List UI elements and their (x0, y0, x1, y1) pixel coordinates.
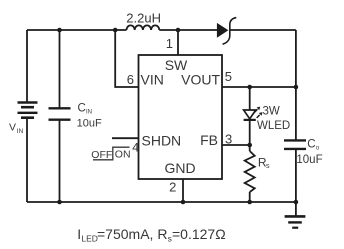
svg-text:6: 6 (127, 72, 134, 87)
svg-text:C: C (307, 139, 315, 151)
svg-text:VIN: VIN (141, 72, 164, 88)
svg-text:2: 2 (169, 179, 176, 194)
off/on level line (93, 147, 130, 160)
ground symbol bar 2 (288, 221, 302, 223)
LED D2 triangle (244, 110, 256, 119)
svg-text:C: C (78, 103, 86, 115)
wire: right rail upper segment (295, 30, 297, 140)
wire: LED cathode to FB node (249, 120, 251, 151)
node: Cin tap on top rail (57, 28, 62, 33)
node: output ground junction (294, 200, 299, 205)
svg-text:WLED: WLED (257, 120, 290, 132)
wire: pin 1 SW lead (177, 30, 179, 55)
battery VIN plate short 1 (21, 106, 34, 109)
svg-text:10uF: 10uF (296, 154, 322, 166)
wire: Cin bottom lead (59, 120, 61, 202)
wire: right rail lower segment (295, 149, 297, 217)
op-amp U1 IC body (139, 55, 223, 179)
ground symbol bar 1 (285, 215, 306, 218)
wire: pin 2 GND lead (182, 179, 184, 202)
battery VIN plate long 2 (18, 112, 38, 114)
capacitor CO bottom plate (284, 148, 306, 150)
capacitor CIN top plate (49, 107, 71, 109)
wire: top rail from battery to inductor (27, 29, 127, 31)
wire: VOUT to right rail (222, 86, 296, 88)
ground symbol bar 3 (292, 227, 298, 229)
resistor Rs zigzag (245, 151, 255, 192)
svg-text:2.2uH: 2.2uH (126, 10, 161, 25)
diode D1 schottky triangle (217, 23, 229, 38)
svg-text:GND: GND (164, 160, 195, 176)
inductor L1 (127, 25, 160, 30)
wire: LED top lead (249, 87, 251, 110)
node: Cin bottom junction (57, 200, 62, 205)
wire: FB stub (222, 144, 250, 146)
svg-text:OFF: OFF (91, 149, 112, 161)
svg-text:LED: LED (81, 234, 98, 244)
svg-text:1: 1 (166, 36, 173, 51)
svg-text:ON: ON (115, 149, 131, 161)
svg-text:=0.127Ω: =0.127Ω (172, 226, 226, 242)
wire: inductor to diode anode (159, 29, 217, 31)
node: VIN tap on top rail (113, 28, 118, 33)
capacitor CO top plate (284, 139, 306, 141)
svg-text:4: 4 (132, 141, 139, 155)
node: right rail VOUT junction (294, 85, 299, 90)
battery VIN plate short 2 (21, 116, 34, 119)
svg-text:3W: 3W (263, 105, 280, 117)
node: FB junction (247, 143, 252, 148)
LED arrow 1 (254, 109, 257, 112)
node: GND pin junction (181, 200, 186, 205)
diode D1 schottky cathode bar (223, 18, 237, 45)
wire: diode cathode to right rail (230, 29, 296, 31)
svg-text:VOUT: VOUT (181, 72, 220, 88)
node: Rs bottom junction (247, 200, 252, 205)
svg-text:5: 5 (225, 69, 232, 84)
battery VIN plate long 1 (18, 101, 38, 103)
svg-text:IN: IN (86, 109, 92, 115)
wire: Rs bottom lead (249, 192, 251, 202)
capacitor CIN bottom plate (49, 118, 71, 120)
wire: Cin top lead (59, 30, 61, 108)
LED arrow 2 (257, 115, 260, 118)
wire: battery to bottom rail (26, 118, 28, 202)
wire: VIN branch vertical (115, 30, 138, 87)
svg-text:IN: IN (17, 128, 24, 135)
svg-text:V: V (9, 122, 16, 134)
node: LED top junction (247, 85, 252, 90)
node: SW node junction (pin1) (176, 28, 181, 33)
wire: SHDN stub (112, 137, 139, 139)
svg-text:SHDN: SHDN (142, 133, 182, 149)
wire: bottom rail (27, 201, 296, 203)
wire: left rail down to battery (26, 30, 28, 103)
svg-text:FB: FB (200, 132, 218, 148)
LED D2 cathode bar (244, 119, 256, 121)
svg-text:s: s (266, 163, 270, 170)
svg-text:10uF: 10uF (77, 117, 102, 129)
svg-text:=750mA, R: =750mA, R (97, 226, 167, 242)
